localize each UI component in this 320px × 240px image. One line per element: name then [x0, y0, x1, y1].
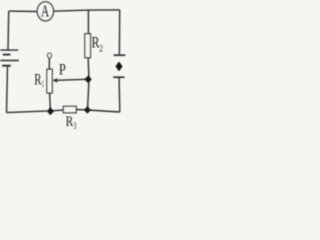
wire R1 bottom to dot1 — [49, 93, 52, 111]
wiper arrow P shaft — [57, 79, 86, 80]
svg-text:1: 1 — [42, 80, 44, 90]
wire R2 branch top — [87, 10, 89, 34]
rheostat R1 box — [47, 69, 52, 93]
label R3 — [66, 114, 77, 131]
wire top-left — [9, 10, 38, 12]
resistor R3 box — [63, 106, 76, 113]
svg-text:A: A — [41, 2, 50, 21]
wire right lower (capacitor bottom lead) — [118, 77, 121, 112]
battery short plate 1 — [3, 54, 11, 56]
wire R1 terminal stem — [48, 58, 50, 69]
svg-text:P: P — [59, 60, 66, 79]
wire top-right — [53, 10, 119, 11]
battery long plate 2 — [0, 60, 19, 62]
resistor R2 box — [85, 34, 91, 58]
svg-text:R: R — [66, 114, 74, 130]
charged ball between capacitor plates — [116, 63, 121, 71]
ammeter A circle — [37, 2, 53, 21]
rheostat R1 terminal circle — [48, 53, 52, 58]
wire left lower — [7, 66, 8, 113]
wiper arrow P head — [52, 78, 57, 83]
svg-text:2: 2 — [99, 43, 103, 54]
label R1 — [34, 71, 44, 90]
wire bottom-left — [7, 111, 48, 113]
battery long plate 1 — [0, 49, 18, 51]
capacitor top plate — [114, 54, 126, 56]
wire dot1 to R3 — [50, 110, 63, 111]
wire R2 branch lower — [88, 58, 90, 110]
svg-text:3: 3 — [73, 121, 76, 131]
junction dot1 (diamond) — [48, 108, 53, 114]
wire right upper (capacitor top lead) — [118, 10, 120, 55]
wire dot2 to bottom-right corner — [87, 110, 119, 112]
label R2 — [92, 34, 103, 54]
wire left upper — [7, 11, 10, 50]
junction dot P (diamond) — [85, 76, 91, 82]
wire R3 to dot2 — [76, 109, 87, 111]
battery short plate 2 — [2, 65, 11, 67]
junction dot2 (diamond) — [85, 107, 90, 113]
capacitor bottom plate — [113, 76, 124, 78]
